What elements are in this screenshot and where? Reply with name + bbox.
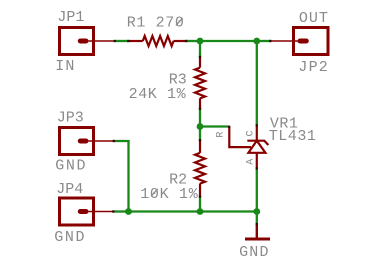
wire JP1 to R1 (116, 40, 129, 42)
wire node E to node F (200, 210, 257, 212)
svg-text:TL431: TL431 (269, 128, 317, 145)
svg-text:IN: IN (55, 58, 75, 75)
svg-text:OUT: OUT (299, 10, 329, 27)
svg-text:A: A (246, 159, 257, 165)
anode triangle (248, 141, 265, 153)
wire node F to ground (256, 212, 258, 225)
junction node A (197, 38, 204, 45)
wire R2 to node E (199, 197, 201, 212)
wire node A to node B (200, 40, 257, 42)
junction node D (125, 208, 132, 215)
wire node B down to VR1 cathode (256, 41, 258, 126)
shunt regulator VR1 TL431 (229, 126, 268, 169)
svg-text:10K 1%: 10K 1% (140, 186, 199, 203)
ground symbol (245, 224, 270, 239)
wire JP3 to corner (114, 141, 129, 212)
cathode bar (247, 141, 268, 145)
wire node D to node E (129, 210, 201, 212)
svg-text:JP3: JP3 (57, 110, 84, 127)
svg-text:GND: GND (239, 244, 270, 261)
connector JP2 (271, 28, 329, 55)
pin A anode (256, 153, 258, 169)
wire VR1 anode to node F (256, 169, 258, 212)
svg-text:JP2: JP2 (298, 59, 329, 76)
junction node B (253, 38, 260, 45)
resistor R1 (129, 36, 187, 46)
wire node C to VR1 ref (200, 125, 229, 127)
wire R3 to node C (199, 109, 201, 127)
svg-text:24K 1%: 24K 1% (129, 86, 187, 103)
junction node C (197, 123, 204, 130)
svg-text:R1 270: R1 270 (127, 15, 185, 32)
connector JP4 (60, 198, 114, 225)
junction node E (197, 208, 204, 215)
junction node F (253, 208, 260, 215)
wire R1 to node A (186, 40, 200, 42)
svg-text:GND: GND (54, 229, 86, 246)
svg-text:JP1: JP1 (57, 9, 84, 26)
slashed zero 10K (151, 189, 158, 197)
connector JP1 (60, 28, 116, 55)
wire JP4 to node D (114, 210, 129, 212)
resistor R2 (195, 140, 205, 196)
svg-text:R: R (216, 132, 227, 138)
slashed zero R1 270 (176, 18, 183, 26)
connector JP3 (60, 128, 115, 155)
wire node B to JP2 (257, 40, 271, 42)
wire node A down to R3 (199, 41, 201, 57)
pin R reference bent (229, 127, 251, 148)
resistor R3 (195, 57, 205, 109)
junction darkening marks (112, 41, 271, 225)
pin C cathode (256, 126, 258, 141)
svg-text:GND: GND (55, 157, 87, 174)
wire node C down to R2 (199, 127, 201, 141)
svg-text:C: C (246, 130, 257, 136)
svg-text:JP4: JP4 (56, 181, 83, 198)
